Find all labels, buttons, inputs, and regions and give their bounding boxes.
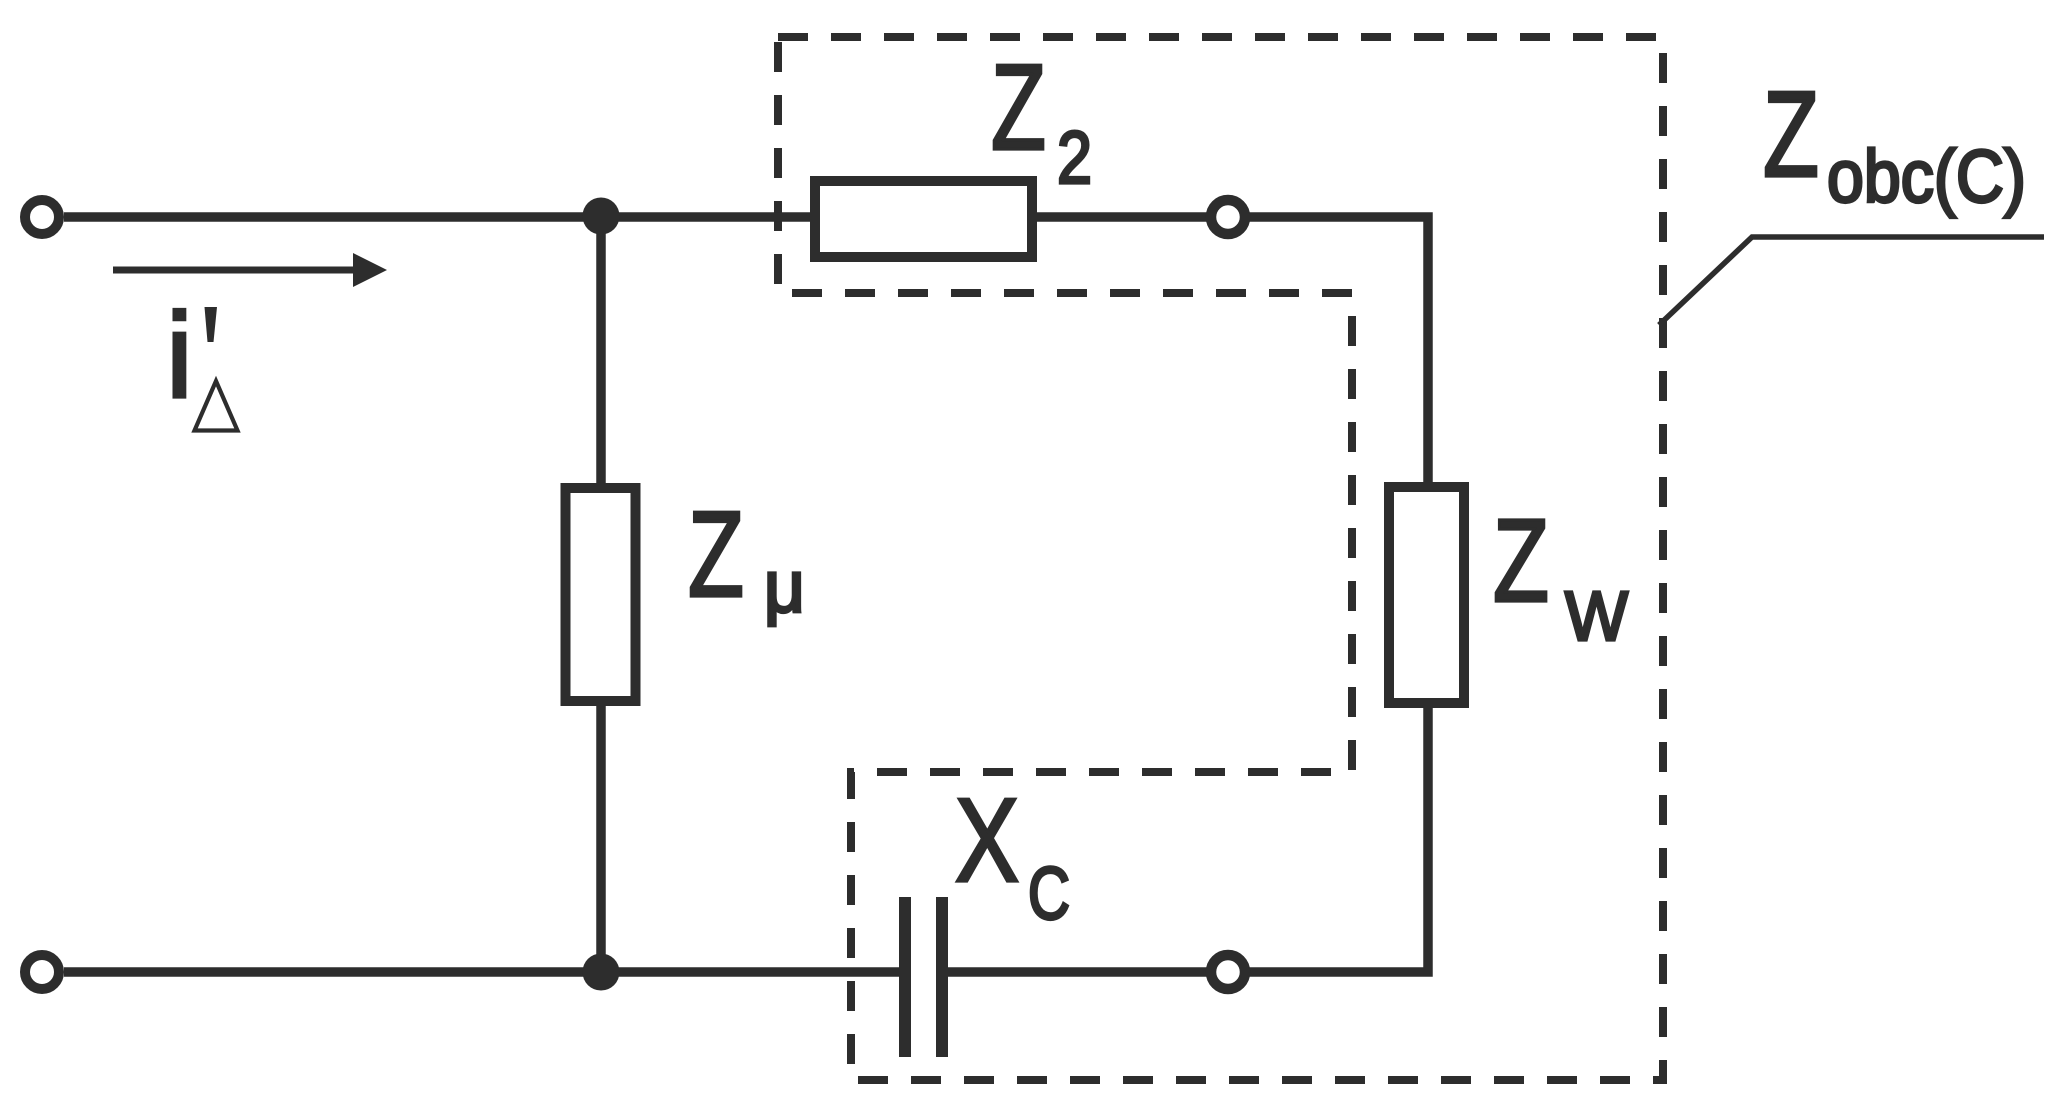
svg-text:obc(C): obc(C) [1827,135,2026,218]
svg-text:Z: Z [688,486,744,622]
wire Zmu top stem [596,217,606,488]
resistor Z2 [815,181,1032,257]
prime mark of i [205,307,218,342]
svg-text:i: i [166,287,193,423]
svg-text:Z: Z [1763,66,1819,202]
current arrow [113,267,353,274]
junction node bottom [583,954,620,991]
wire capacitor to circle [946,967,1206,977]
svg-text:W: W [1565,577,1628,655]
svg-text:2: 2 [1057,116,1092,199]
terminal top-left [25,200,59,234]
terminal bottom-left [25,955,59,989]
svg-text:X: X [955,774,1019,907]
wire Zw bottom with corner left [1206,703,1428,972]
dashed boundary box Zobc(C) [778,37,1663,1080]
svg-text:Z: Z [1493,495,1549,627]
resistor Zmu [566,488,636,701]
svg-text:C: C [1028,852,1070,935]
capacitor Xc plates [899,897,911,1057]
connector circle top [1211,200,1245,234]
label delta subscript [195,381,238,431]
wire top-left [64,212,812,222]
wire Zmu bottom stem [596,701,606,972]
leader line to Zobc(C) label [1659,237,2044,325]
wire bottom-left [64,967,899,977]
connector circle bottom [1211,955,1245,989]
svg-text:μ: μ [764,547,805,628]
resistor Zw [1389,487,1464,703]
wire top-right with corner down to Zw [1035,217,1428,487]
svg-text:Z: Z [991,39,1046,175]
junction node top [583,198,620,235]
